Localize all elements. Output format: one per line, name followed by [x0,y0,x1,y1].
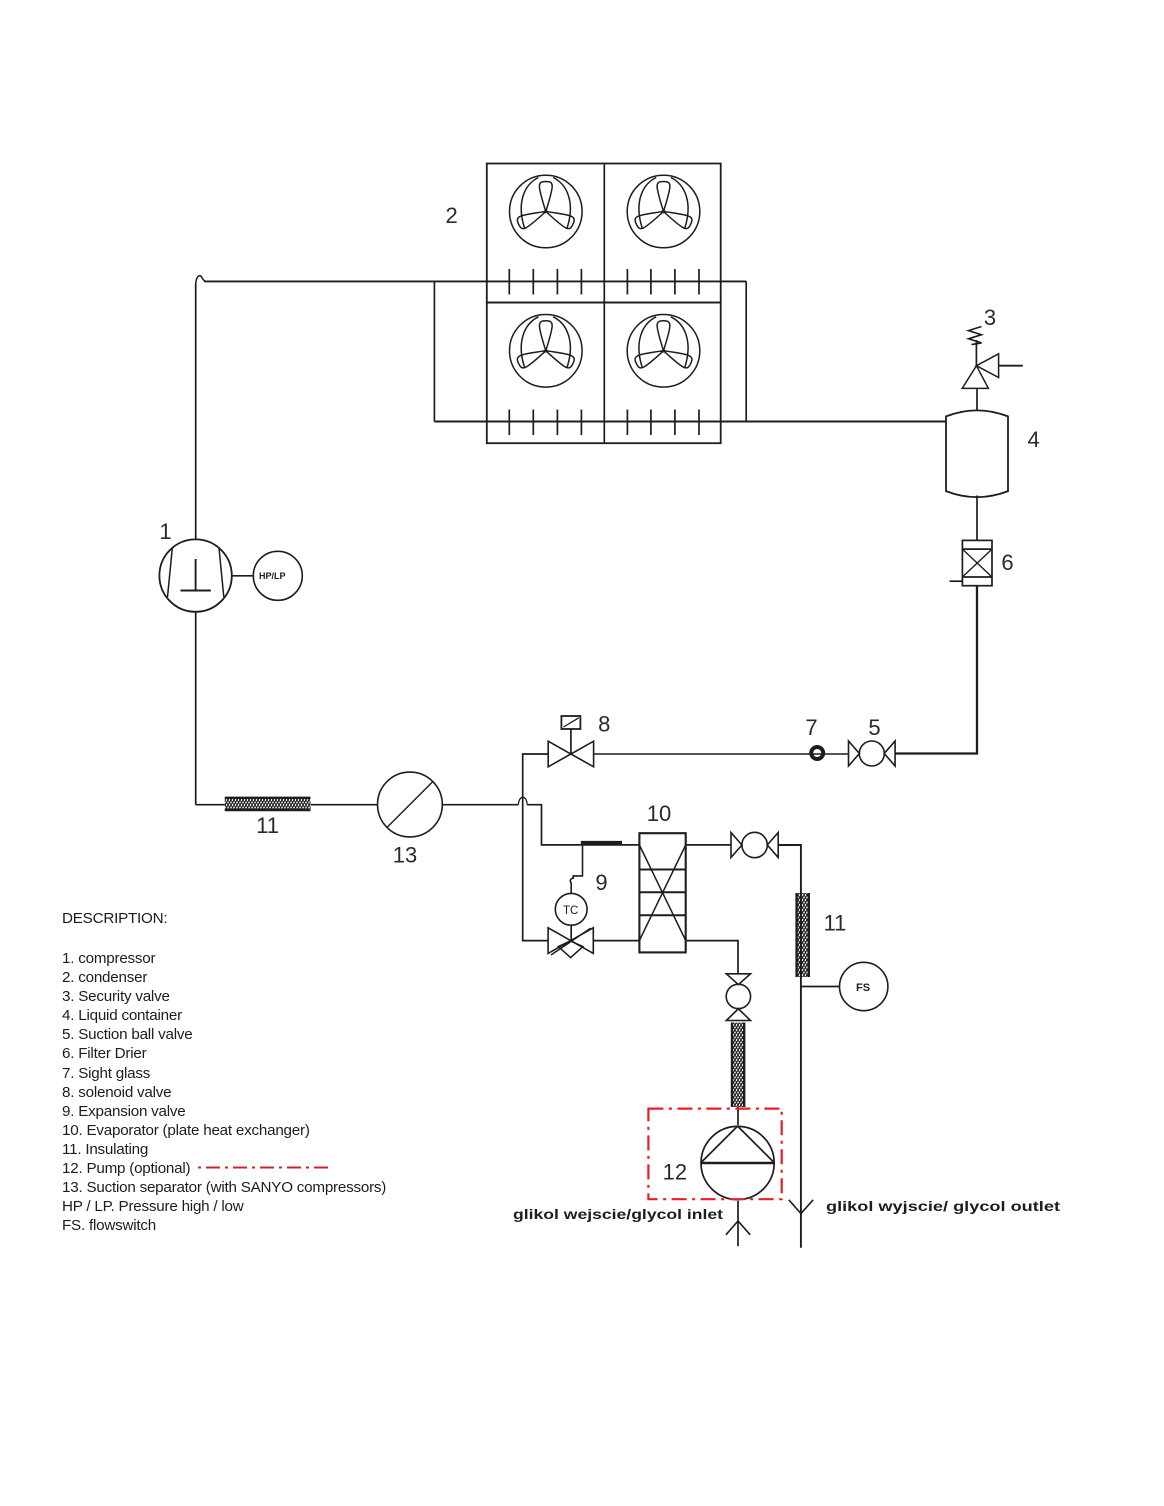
svg-text:1. compressor: 1. compressor [62,950,156,967]
svg-text:12. Pump (optional): 12. Pump (optional) [62,1160,191,1177]
ball valve 5 right triangle [884,741,895,766]
security valve 3 bottom triangle [962,366,988,389]
svg-text:FS: FS [856,982,870,994]
expansion valve 9 bowtie [548,928,593,954]
svg-text:7. Sight glass: 7. Sight glass [62,1065,151,1082]
solenoid valve 8 coil stem [570,729,572,754]
outlet ball valve right triangle [767,833,778,858]
wire: security valve right stub [999,365,1023,367]
wire: hot gas line to condenser (horizontal y=281.4) [204,280,746,282]
svg-text:13: 13 [393,843,417,868]
condenser 2: lower unit center divider [603,303,605,444]
wire: valve 8 to sight glass 7 [594,753,849,755]
security valve 3 right triangle [976,354,998,378]
red dash-dot pump enclosure box [648,1109,781,1200]
fan top-left [510,175,583,248]
wire: suction line bump to corner and down to evaporator level [527,805,639,845]
condenser 2: lower unit box [487,303,721,444]
svg-text:10: 10 [647,801,671,826]
outlet ball valve left triangle [731,833,742,858]
wire: liquid line valve8 to left corner, down to expansion valve, under jump [523,754,549,941]
pump branch vertical valve bottom triangle [726,1009,750,1021]
HP/LP pressure switch circle [253,551,302,600]
fan bottom-right [627,315,700,388]
wire: evaporator top-right to outlet ball valve [686,844,731,846]
svg-text:2. condenser: 2. condenser [62,969,147,986]
insulation 11 right band (vertical) [796,893,809,977]
svg-text:3. Security valve: 3. Security valve [62,988,170,1005]
svg-text:HP / LP. Pressure high / low: HP / LP. Pressure high / low [62,1198,244,1215]
pump branch vertical valve ball [726,984,750,1008]
svg-text:DESCRIPTION:: DESCRIPTION: [62,910,167,927]
pump 12 impeller symbol [701,1162,775,1165]
svg-text:1: 1 [159,519,171,544]
wire: suction line insulation to separator [311,804,378,806]
suction separator 13 circle [378,772,443,837]
wire: evaporator bottom-right to pump branch [686,941,738,974]
filter drier 6 [950,540,993,585]
svg-text:8: 8 [598,712,610,737]
evaporator 10 plate lines [639,870,685,916]
svg-text:TC: TC [563,905,578,917]
svg-text:11. Insulating: 11. Insulating [62,1141,148,1158]
evaporator 10 plate heat exchanger box [639,833,685,952]
wire: FS link [801,986,840,988]
wire: receiver top to security valve [976,388,978,410]
fan top-right [627,175,700,248]
solenoid valve 8 body (bowtie) [548,741,593,767]
wire: pump outlet down with glycol inlet arrowhead [737,1201,739,1246]
wire: compressor suction riser down [195,612,197,805]
compressor 1 inner piston chords [168,548,224,597]
condenser coil ticks upper-left cell [509,269,581,295]
wire: condenser right branch vertical [745,281,747,421]
red dash-dot sample for optional pump [198,1167,333,1169]
condenser coil ticks lower-left cell [509,410,581,436]
svg-text:12: 12 [663,1160,687,1185]
pump 12 circle [701,1126,774,1199]
svg-text:4. Liquid container: 4. Liquid container [62,1007,182,1024]
svg-text:13. Suction separator (with SA: 13. Suction separator (with SANYO compre… [62,1179,386,1196]
wire: filter drier to receiver [976,496,978,541]
compressor 1 inner perpendicular symbol [181,559,211,591]
svg-text:3: 3 [984,305,996,330]
security valve 3 spring zigzag [969,327,982,345]
glycol outlet arrowhead [789,1200,813,1214]
svg-text:11: 11 [256,813,279,838]
solenoid valve 8 coil box with diagonal [561,716,580,729]
svg-text:9: 9 [595,870,607,895]
wire: capillary hook to TC [570,878,573,893]
wire: jump-over bump on suction line [518,797,527,804]
outlet ball valve ball [742,832,767,857]
expansion valve 9 lower diamond element [558,941,583,958]
condenser coil ticks upper-right cell [627,269,699,295]
wire: condenser lower outlet line to receiver (y=421.5) [434,421,946,423]
wire: compressor discharge riser (vertical x=196) [195,284,197,540]
suction separator 13 diagonal [387,782,433,828]
sight glass 7 [811,747,823,759]
svg-text:glikol wejscie/glycol inlet: glikol wejscie/glycol inlet [513,1206,723,1222]
evaporator 10 cross diagonals [639,845,685,941]
svg-text:7: 7 [805,715,817,740]
svg-text:glikol wyjscie/ glycol outl: glikol wyjscie/ glycol outlet [826,1198,1060,1214]
svg-text:9. Expansion valve: 9. Expansion valve [62,1103,186,1120]
svg-text:FS. flowswitch: FS. flowswitch [62,1217,156,1234]
svg-text:4: 4 [1027,427,1039,452]
wire: separator to liquid-line jump [442,804,518,806]
wire: ball valve 5 to riser up to filter drier [895,586,977,754]
expansion valve 9 crossing slant [551,928,591,955]
insulation band on pump branch [731,1023,744,1108]
wire: outlet valve to glycol outlet riser [778,845,801,1248]
wire: condenser left branch vertical [433,281,435,421]
fan bottom-left [510,315,583,388]
svg-text:HP/LP: HP/LP [259,571,286,581]
svg-text:10. Evaporator (plate heat exc: 10. Evaporator (plate heat exchanger) [62,1122,310,1139]
svg-text:11: 11 [824,911,847,936]
svg-text:5. Suction ball valve: 5. Suction ball valve [62,1026,192,1043]
svg-text:5: 5 [868,715,880,740]
svg-text:6: 6 [1001,550,1013,575]
wire: TC to expansion valve stem [570,925,572,940]
liquid receiver 4 (container) [946,410,1008,497]
condenser 2: upper unit center divider [603,164,605,303]
wire: bulb capillary down-jog [573,845,582,879]
ball valve 5 left triangle [849,741,860,766]
TC thermostat circle [555,893,587,925]
compressor 1 body circle [159,539,231,611]
condenser coil ticks lower-right cell [627,410,699,436]
svg-text:6. Filter Drier: 6. Filter Drier [62,1045,147,1062]
TXV sensor bulb on suction line [581,841,622,845]
wire: expansion valve to evaporator bottom-left [593,940,639,942]
link wire compressor to HP/LP switch [232,575,253,577]
FS flowswitch circle [840,962,888,1010]
condenser 2: upper unit box [487,164,721,303]
ball valve 5 ball [859,741,884,766]
pump branch vertical valve top triangle [726,974,750,985]
wire: suction line horizontal to insulation [196,804,226,806]
insulation 11 left band [225,797,311,810]
description list [62,950,386,1234]
svg-text:8. solenoid valve: 8. solenoid valve [62,1084,171,1101]
wire: insulation to pump [737,1107,739,1125]
security valve 3 stem [975,340,977,366]
wire: corner hook at top of discharge riser [196,276,207,286]
glycol inlet arrowhead [726,1221,750,1235]
svg-text:2: 2 [445,203,457,228]
